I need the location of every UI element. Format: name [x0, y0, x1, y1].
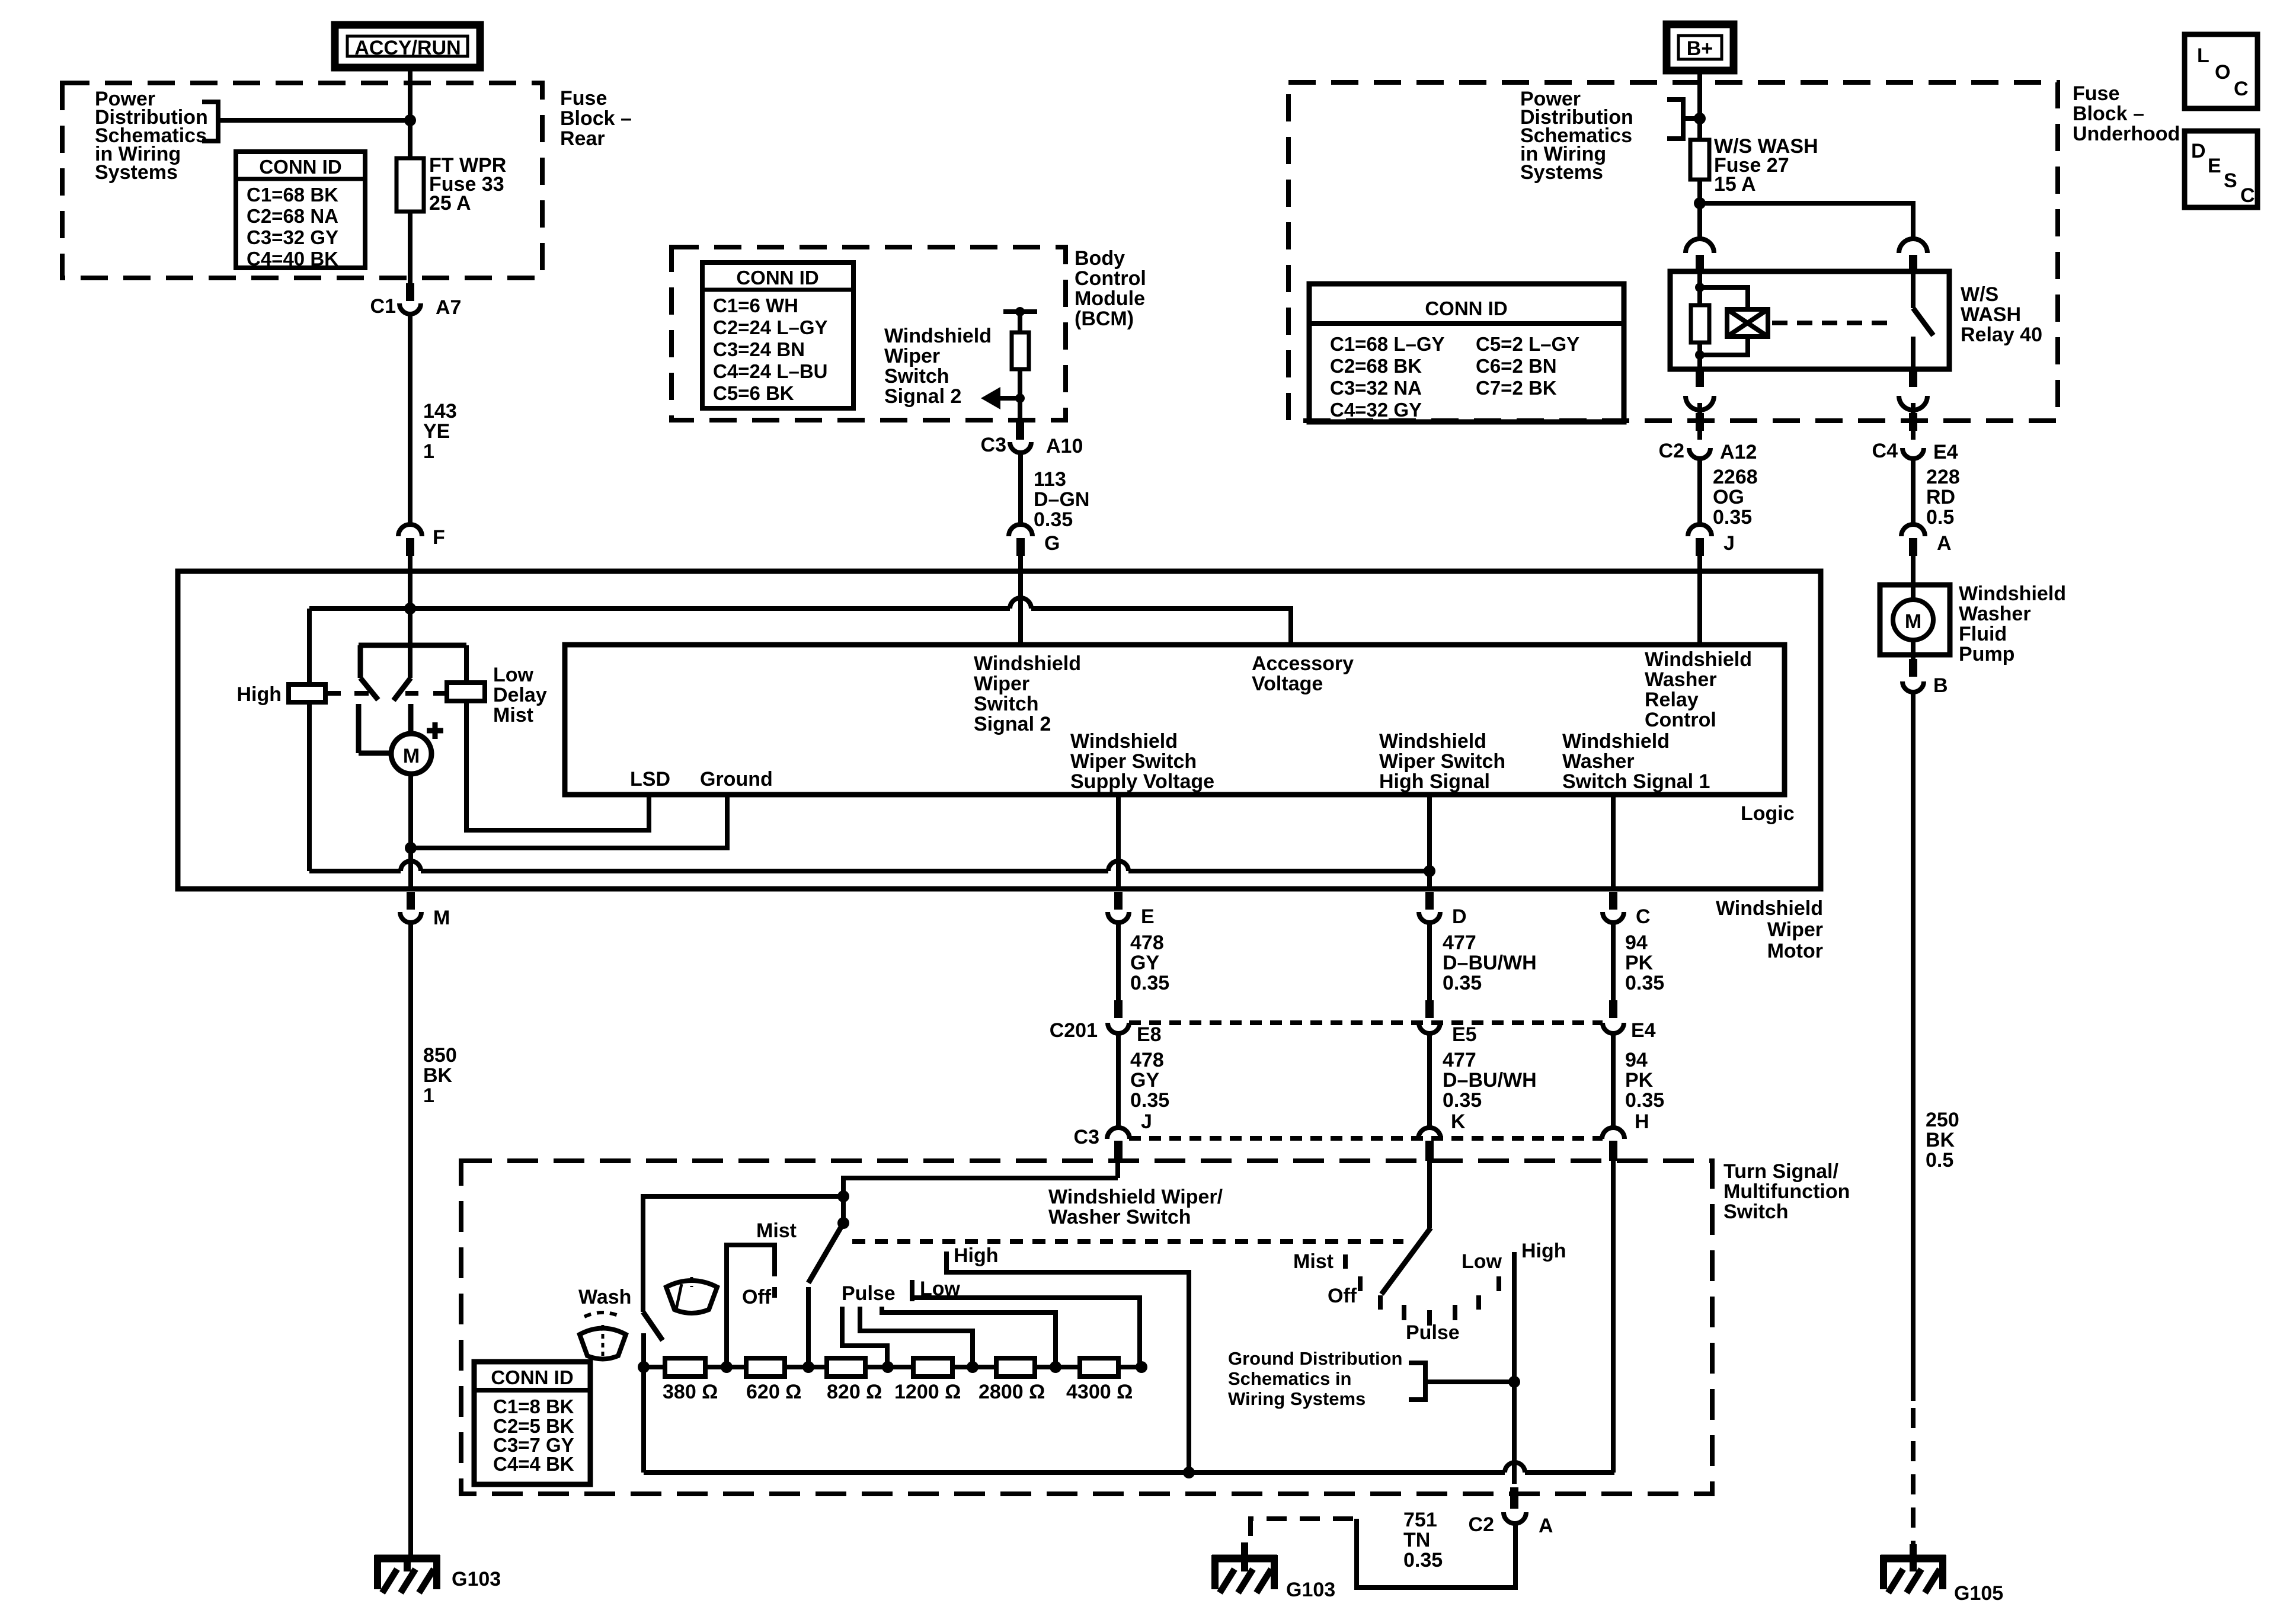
- motor M with +: [359, 704, 443, 774]
- switch common bottom line: [644, 1367, 1614, 1473]
- svg-text:C4=40 BK: C4=40 BK: [247, 248, 338, 270]
- connector C: [1603, 892, 1651, 928]
- wire 94 PK 0.35 upper: [1611, 923, 1616, 1003]
- connector F: [398, 524, 445, 556]
- pin label windshield wiper switch signal 2: [974, 652, 1081, 735]
- pin label windshield washer relay control: [1645, 648, 1752, 731]
- svg-text:C1=68 L–GY: C1=68 L–GY: [1330, 333, 1445, 355]
- svg-text:C4=4 BK: C4=4 BK: [493, 1453, 574, 1475]
- svg-text:0.5: 0.5: [1926, 1149, 1953, 1172]
- wiper mode arm (left): [808, 1223, 843, 1283]
- svg-text:380 Ω: 380 Ω: [663, 1381, 718, 1403]
- pin label windshield wiper switch high signal: [1379, 730, 1505, 793]
- ground G103 middle: [1212, 1542, 1335, 1601]
- svg-text:Control: Control: [1075, 267, 1146, 290]
- svg-text:0.35: 0.35: [1130, 972, 1169, 994]
- svg-text:Mist: Mist: [756, 1219, 797, 1242]
- svg-text:GY: GY: [1130, 952, 1159, 974]
- connector C2 A (751 TN): [1469, 1487, 1553, 1537]
- svg-text:C2: C2: [1659, 440, 1684, 462]
- svg-text:Windshield: Windshield: [1070, 730, 1178, 753]
- svg-text:Mist: Mist: [1293, 1250, 1334, 1273]
- ground distribution bracket: [1228, 1348, 1512, 1409]
- svg-text:Ground Distribution: Ground Distribution: [1228, 1348, 1402, 1369]
- wire 250 BK 0.5 to G105: [1911, 693, 1916, 1401]
- svg-text:D–BU/WH: D–BU/WH: [1443, 1069, 1537, 1092]
- connector M: [400, 892, 450, 929]
- svg-text:High: High: [1521, 1240, 1566, 1262]
- svg-text:Underhood: Underhood: [2073, 123, 2180, 145]
- svg-text:M: M: [433, 907, 450, 929]
- ground G103 left: [375, 1555, 501, 1593]
- svg-text:C7=2 BK: C7=2 BK: [1476, 377, 1557, 399]
- connector A (washer pump): [1901, 524, 1952, 556]
- svg-text:0.35: 0.35: [1443, 972, 1482, 994]
- svg-text:Windshield: Windshield: [1562, 730, 1670, 753]
- svg-text:TN: TN: [1403, 1529, 1430, 1551]
- wire J to logic: [1697, 555, 1702, 645]
- svg-text:Schematics in: Schematics in: [1228, 1368, 1351, 1389]
- svg-text:Signal 2: Signal 2: [884, 385, 961, 408]
- svg-text:477: 477: [1443, 1049, 1476, 1071]
- svg-text:F: F: [433, 526, 445, 549]
- Ground pin wire: [411, 795, 727, 848]
- svg-text:H: H: [1635, 1110, 1649, 1133]
- svg-text:Mist: Mist: [493, 704, 533, 726]
- connector J: [1688, 524, 1735, 556]
- K wire to speed selector arm: [1427, 1158, 1432, 1228]
- svg-text:B: B: [1933, 674, 1948, 697]
- connector C1 A7: [370, 295, 462, 319]
- svg-text:Block –: Block –: [2073, 103, 2144, 125]
- resistor chain line: [644, 1365, 1141, 1369]
- accessory voltage feed line: [309, 598, 1291, 645]
- svg-text:C1=68 BK: C1=68 BK: [247, 184, 338, 206]
- pin label windshield wiper switch supply voltage: [1070, 730, 1214, 793]
- svg-text:0.35: 0.35: [1625, 972, 1664, 994]
- svg-text:Motor: Motor: [1767, 940, 1823, 962]
- svg-text:C4=24 L–BU: C4=24 L–BU: [713, 360, 828, 382]
- pulse tap 3: [882, 1307, 1056, 1367]
- CONN ID table (fuse block rear): [236, 152, 365, 270]
- bracket to power distribution (right): [1667, 100, 1697, 139]
- svg-text:BK: BK: [1926, 1129, 1955, 1151]
- svg-text:Multifunction: Multifunction: [1723, 1180, 1850, 1203]
- svg-text:C2: C2: [1469, 1513, 1494, 1536]
- svg-text:High Signal: High Signal: [1379, 770, 1490, 793]
- connector C3 J: [1074, 1110, 1152, 1161]
- switch position dashes: [328, 691, 446, 696]
- svg-text:D: D: [1452, 905, 1467, 928]
- svg-text:Body: Body: [1075, 247, 1125, 270]
- connector row C3 J K H dashed line: [1129, 1136, 1603, 1141]
- connector C3 A10: [981, 422, 1083, 457]
- relay switch: [1913, 271, 1933, 369]
- svg-text:Relay: Relay: [1645, 689, 1699, 711]
- resistor 620: [746, 1358, 785, 1377]
- svg-text:2268: 2268: [1713, 466, 1758, 488]
- pulse tap 1: [842, 1307, 887, 1367]
- label Windshield Wiper Switch Signal 2 (BCM): [884, 325, 992, 408]
- svg-text:Pulse: Pulse: [842, 1282, 896, 1305]
- pin label accessory voltage: [1252, 652, 1354, 695]
- svg-text:C5=6 BK: C5=6 BK: [713, 382, 794, 404]
- svg-text:Pump: Pump: [1959, 643, 2014, 665]
- svg-text:Rear: Rear: [560, 127, 605, 150]
- power box ACCY/RUN: [335, 25, 480, 68]
- label W/S WASH Relay 40: [1961, 283, 2042, 346]
- logic box: [565, 645, 1785, 795]
- high signal bus from High resistor: [309, 702, 1435, 877]
- svg-text:113: 113: [1034, 468, 1066, 491]
- node ground junction: [405, 842, 417, 854]
- connector G: [1009, 524, 1060, 556]
- wire 113 D-GN 0.35: [1018, 454, 1023, 524]
- svg-text:Logic: Logic: [1741, 802, 1795, 825]
- svg-text:C: C: [2240, 184, 2255, 207]
- svg-text:Delay: Delay: [493, 684, 547, 706]
- svg-text:Voltage: Voltage: [1252, 673, 1323, 695]
- wire 228 RD 0.5: [1911, 460, 1916, 524]
- E pin wire: [1116, 795, 1121, 889]
- svg-text:143: 143: [423, 400, 457, 422]
- svg-text:Windshield: Windshield: [1379, 730, 1486, 753]
- wire to relay switch side: [1700, 203, 1913, 239]
- relay bottom connectors: [1696, 370, 1704, 387]
- svg-text:Wiring Systems: Wiring Systems: [1228, 1388, 1366, 1409]
- svg-text:D–GN: D–GN: [1034, 488, 1089, 511]
- svg-text:Supply Voltage: Supply Voltage: [1070, 770, 1214, 793]
- svg-text:E4: E4: [1631, 1019, 1656, 1042]
- svg-text:M: M: [1905, 610, 1921, 633]
- svg-text:C3=32 NA: C3=32 NA: [1330, 377, 1422, 399]
- C201 connector row dashed line: [1129, 1020, 1603, 1025]
- svg-text:C4: C4: [1872, 440, 1898, 462]
- svg-text:Wash: Wash: [578, 1286, 631, 1308]
- svg-text:Windshield: Windshield: [1716, 897, 1823, 920]
- pin label windshield washer switch signal 1: [1562, 730, 1710, 793]
- svg-text:Washer: Washer: [1645, 668, 1717, 691]
- fuse block rear dashed box: [62, 83, 542, 278]
- label Fuse Block Underhood: [2073, 82, 2180, 145]
- svg-text:BK: BK: [423, 1064, 453, 1087]
- selector position dashes: [1345, 1254, 1499, 1326]
- wash icon with spray: [580, 1313, 626, 1359]
- J wire into switch: [837, 1158, 1118, 1229]
- svg-text:0.35: 0.35: [1034, 508, 1073, 531]
- svg-text:4300 Ω: 4300 Ω: [1066, 1381, 1133, 1403]
- wire 2268 OG 0.35: [1697, 460, 1702, 524]
- svg-text:Windshield Wiper/: Windshield Wiper/: [1048, 1186, 1223, 1208]
- svg-text:Windshield: Windshield: [884, 325, 992, 347]
- svg-text:ACCY/RUN: ACCY/RUN: [354, 37, 461, 59]
- svg-text:A: A: [1937, 532, 1952, 555]
- svg-text:751: 751: [1403, 1509, 1437, 1531]
- resistor 820: [827, 1358, 865, 1377]
- relay W/S WASH Relay 40 box: [1670, 271, 1949, 369]
- wire 477 D-BU/WH 0.35 upper: [1427, 923, 1432, 1003]
- svg-text:CONN ID: CONN ID: [1425, 297, 1507, 319]
- svg-text:Pulse: Pulse: [1406, 1321, 1460, 1344]
- wire 751 TN 0.35: [1403, 1509, 1443, 1571]
- resistor 4300: [1080, 1358, 1118, 1377]
- svg-text:Low: Low: [1462, 1250, 1502, 1273]
- svg-text:B+: B+: [1687, 37, 1713, 60]
- svg-text:RD: RD: [1926, 486, 1955, 508]
- chain junction nodes: [638, 1361, 650, 1373]
- svg-text:E: E: [2208, 155, 2221, 177]
- wire 143 YE 1: [408, 316, 412, 524]
- svg-text:LSD: LSD: [630, 768, 670, 790]
- resistor 380: [665, 1358, 705, 1377]
- svg-text:G: G: [1044, 532, 1060, 555]
- svg-text:C6=2 BN: C6=2 BN: [1476, 355, 1557, 377]
- BCM dashed box: [671, 247, 1066, 420]
- svg-text:A12: A12: [1720, 441, 1757, 463]
- svg-text:High: High: [236, 683, 282, 706]
- relay coil: [1691, 271, 1768, 369]
- svg-text:250: 250: [1926, 1109, 1959, 1131]
- svg-text:Wiper: Wiper: [1767, 918, 1823, 941]
- svg-text:Windshield: Windshield: [974, 652, 1081, 675]
- label Fuse Block Rear: [560, 87, 632, 150]
- fuse block underhood dashed box: [1288, 82, 2058, 421]
- svg-text:850: 850: [423, 1044, 457, 1067]
- label Turn Signal Multifunction Switch: [1723, 1160, 1850, 1223]
- svg-text:0.35: 0.35: [1625, 1089, 1664, 1112]
- svg-text:94: 94: [1625, 932, 1648, 954]
- svg-text:Wiper Switch: Wiper Switch: [1379, 750, 1505, 773]
- svg-text:Windshield: Windshield: [1959, 582, 2066, 605]
- svg-text:E4: E4: [1933, 441, 1958, 463]
- svg-text:Off: Off: [742, 1286, 772, 1308]
- resistor 1200: [913, 1358, 952, 1377]
- relay terminal connector (coil top): [1686, 239, 1714, 253]
- fuse FT WPR Fuse 33 25A: [396, 154, 506, 215]
- connector D: [1419, 892, 1467, 928]
- washer pump box: [1880, 555, 1950, 655]
- svg-text:620 Ω: 620 Ω: [746, 1381, 801, 1403]
- arm contact post: [806, 1287, 811, 1367]
- wire 477 D-BU/WH 0.35 lower: [1427, 1033, 1432, 1128]
- Mist contact loop: [727, 1219, 797, 1367]
- svg-text:0.35: 0.35: [1130, 1089, 1169, 1112]
- svg-text:Systems: Systems: [95, 161, 178, 184]
- svg-text:478: 478: [1130, 1049, 1164, 1071]
- CONN ID table (underhood, two columns): [1309, 284, 1624, 422]
- connector B: [1902, 655, 1948, 697]
- svg-text:Low: Low: [493, 664, 534, 686]
- node junction at power tap: [404, 114, 416, 126]
- svg-text:C1=6 WH: C1=6 WH: [713, 295, 798, 316]
- connector H: [1602, 1110, 1649, 1161]
- svg-text:(BCM): (BCM): [1075, 308, 1134, 330]
- wire motor down to M pin: [408, 774, 413, 889]
- svg-text:W/S: W/S: [1961, 283, 1998, 306]
- H wire down to common line: [1611, 1161, 1616, 1473]
- svg-text:0.35: 0.35: [1443, 1089, 1482, 1112]
- LSD pin wire: [466, 701, 649, 830]
- svg-text:Accessory: Accessory: [1252, 652, 1354, 675]
- resistor High: [236, 609, 325, 706]
- svg-text:M: M: [403, 745, 420, 767]
- CONN ID table (BCM): [702, 263, 853, 408]
- svg-text:15 A: 15 A: [1714, 173, 1756, 196]
- svg-text:A: A: [1539, 1515, 1553, 1537]
- svg-text:D: D: [2191, 140, 2206, 162]
- LOC box: [2185, 34, 2257, 108]
- label Power Distribution Schematics in Wiring Systems (left): [95, 88, 208, 184]
- connector E5: [1419, 1000, 1477, 1046]
- svg-text:C3=32 GY: C3=32 GY: [247, 226, 338, 248]
- svg-text:C3: C3: [1074, 1126, 1099, 1148]
- High contact line / ground wire: [1512, 1252, 1517, 1484]
- svg-text:25 A: 25 A: [429, 192, 471, 215]
- wire 850 BK 1 to G103: [408, 924, 413, 1557]
- svg-text:Washer: Washer: [1562, 750, 1635, 773]
- wire into wiper motor box: [408, 555, 412, 678]
- svg-text:478: 478: [1130, 932, 1164, 954]
- svg-text:Relay 40: Relay 40: [1961, 324, 2042, 346]
- svg-text:K: K: [1451, 1110, 1466, 1133]
- svg-text:Off: Off: [1328, 1285, 1357, 1307]
- svg-text:477: 477: [1443, 932, 1476, 954]
- svg-text:OG: OG: [1713, 486, 1744, 508]
- svg-text:Fuse: Fuse: [560, 87, 607, 110]
- svg-text:E: E: [1141, 905, 1155, 928]
- svg-text:Block –: Block –: [560, 107, 632, 130]
- svg-text:C3: C3: [981, 434, 1006, 456]
- wire 478 GY 0.35 lower: [1116, 1033, 1121, 1128]
- wash switch arm: [643, 1312, 663, 1340]
- wire G to logic: [1018, 555, 1023, 645]
- svg-text:J: J: [1141, 1110, 1152, 1133]
- svg-text:PK: PK: [1625, 1069, 1654, 1092]
- svg-text:E5: E5: [1452, 1023, 1477, 1046]
- wash feed wire: [643, 1196, 843, 1312]
- svg-text:Switch: Switch: [1723, 1201, 1789, 1223]
- node junction right power tap: [1694, 113, 1706, 124]
- svg-text:C1=8 BK: C1=8 BK: [493, 1395, 574, 1417]
- wire ACCY/RUN down: [408, 68, 412, 158]
- svg-text:Washer Switch: Washer Switch: [1048, 1206, 1191, 1228]
- svg-text:YE: YE: [423, 420, 450, 443]
- svg-text:0.5: 0.5: [1926, 506, 1954, 529]
- svg-text:C5=2 L–GY: C5=2 L–GY: [1476, 333, 1579, 355]
- svg-text:Turn Signal/: Turn Signal/: [1723, 1160, 1838, 1183]
- resistor Low Delay Mist: [447, 645, 547, 726]
- svg-text:2800 Ω: 2800 Ω: [978, 1381, 1045, 1403]
- svg-text:0.35: 0.35: [1403, 1549, 1443, 1571]
- svg-text:820 Ω: 820 Ω: [827, 1381, 882, 1403]
- svg-text:D–BU/WH: D–BU/WH: [1443, 952, 1537, 974]
- CONN ID table (turn signal switch): [474, 1362, 590, 1484]
- svg-text:E8: E8: [1137, 1023, 1162, 1046]
- svg-text:Control: Control: [1645, 709, 1716, 731]
- svg-text:High: High: [954, 1244, 999, 1267]
- svg-text:C: C: [1636, 905, 1651, 928]
- label Windshield Wiper Washer Switch: [1048, 1186, 1223, 1228]
- svg-text:C1: C1: [370, 295, 396, 318]
- svg-text:G103: G103: [452, 1568, 501, 1590]
- svg-text:1: 1: [423, 440, 434, 463]
- label Windshield Washer Fluid Pump: [1959, 582, 2066, 665]
- svg-text:C3=24 BN: C3=24 BN: [713, 338, 805, 360]
- svg-text:G105: G105: [1954, 1582, 2003, 1605]
- relay dashed actuating line: [1772, 321, 1895, 325]
- svg-text:Fluid: Fluid: [1959, 623, 2007, 645]
- label Windshield Wiper Motor: [1716, 897, 1823, 962]
- connector E: [1108, 892, 1155, 928]
- wire fuse to C1: [408, 212, 412, 286]
- svg-text:94: 94: [1625, 1049, 1648, 1071]
- svg-text:WASH: WASH: [1961, 303, 2021, 326]
- svg-text:Wiper Switch: Wiper Switch: [1070, 750, 1197, 773]
- connector C4 E4: [1872, 440, 1958, 463]
- D pin wire: [1427, 795, 1432, 889]
- svg-text:Wiper: Wiper: [974, 673, 1029, 695]
- mechanical link dashed: [852, 1239, 1403, 1244]
- svg-text:Windshield: Windshield: [1645, 648, 1752, 671]
- svg-text:Switch: Switch: [974, 693, 1039, 715]
- svg-text:CONN ID: CONN ID: [736, 267, 818, 289]
- power box B+: [1667, 24, 1734, 71]
- svg-text:CONN ID: CONN ID: [491, 1366, 573, 1388]
- turn signal multifunction switch dashed box: [461, 1161, 1712, 1494]
- svg-text:A7: A7: [436, 296, 461, 319]
- relay terminal connector (switch top): [1899, 239, 1927, 253]
- connector C201 E8: [1050, 1000, 1162, 1046]
- svg-text:Switch Signal 1: Switch Signal 1: [1562, 770, 1710, 793]
- svg-text:G103: G103: [1286, 1579, 1335, 1601]
- svg-text:C4=32 GY: C4=32 GY: [1330, 399, 1422, 421]
- connector E4: [1603, 1000, 1656, 1042]
- arrow signal 2: [981, 387, 1025, 409]
- DESC box: [2185, 131, 2257, 207]
- wire 478 GY 0.35 upper: [1116, 923, 1121, 1003]
- connector C2 A12: [1659, 440, 1757, 463]
- svg-text:Ground: Ground: [700, 768, 773, 790]
- resistor inside BCM with pull-up bar: [1003, 307, 1037, 420]
- svg-text:Fuse: Fuse: [2073, 82, 2119, 105]
- svg-text:Module: Module: [1075, 287, 1145, 310]
- svg-text:228: 228: [1926, 466, 1960, 488]
- svg-text:C2=24 L–GY: C2=24 L–GY: [713, 316, 828, 338]
- svg-text:Switch: Switch: [884, 365, 949, 388]
- svg-text:Wiper: Wiper: [884, 345, 940, 367]
- svg-text:J: J: [1723, 532, 1735, 555]
- wash contact post: [641, 1333, 646, 1367]
- svg-text:1: 1: [423, 1084, 434, 1107]
- fuse W/S WASH Fuse 27 15A: [1690, 135, 1818, 196]
- svg-text:PK: PK: [1625, 952, 1654, 974]
- svg-text:C: C: [2234, 78, 2249, 100]
- svg-text:C2=68 NA: C2=68 NA: [247, 205, 338, 227]
- bracket to power distribution (left): [202, 102, 408, 141]
- wiper park switch funnel: [359, 645, 466, 700]
- svg-text:L: L: [2197, 44, 2209, 67]
- wiper icon: [666, 1277, 717, 1313]
- svg-text:A10: A10: [1046, 435, 1083, 457]
- svg-text:C201: C201: [1050, 1019, 1098, 1042]
- svg-text:0.35: 0.35: [1713, 506, 1752, 529]
- svg-text:C2=68 BK: C2=68 BK: [1330, 355, 1422, 377]
- connector K: [1418, 1110, 1466, 1161]
- wire 94 PK 0.35 lower: [1611, 1033, 1616, 1128]
- svg-text:Systems: Systems: [1520, 161, 1603, 184]
- svg-text:GY: GY: [1130, 1069, 1159, 1092]
- C pin wire: [1611, 795, 1616, 889]
